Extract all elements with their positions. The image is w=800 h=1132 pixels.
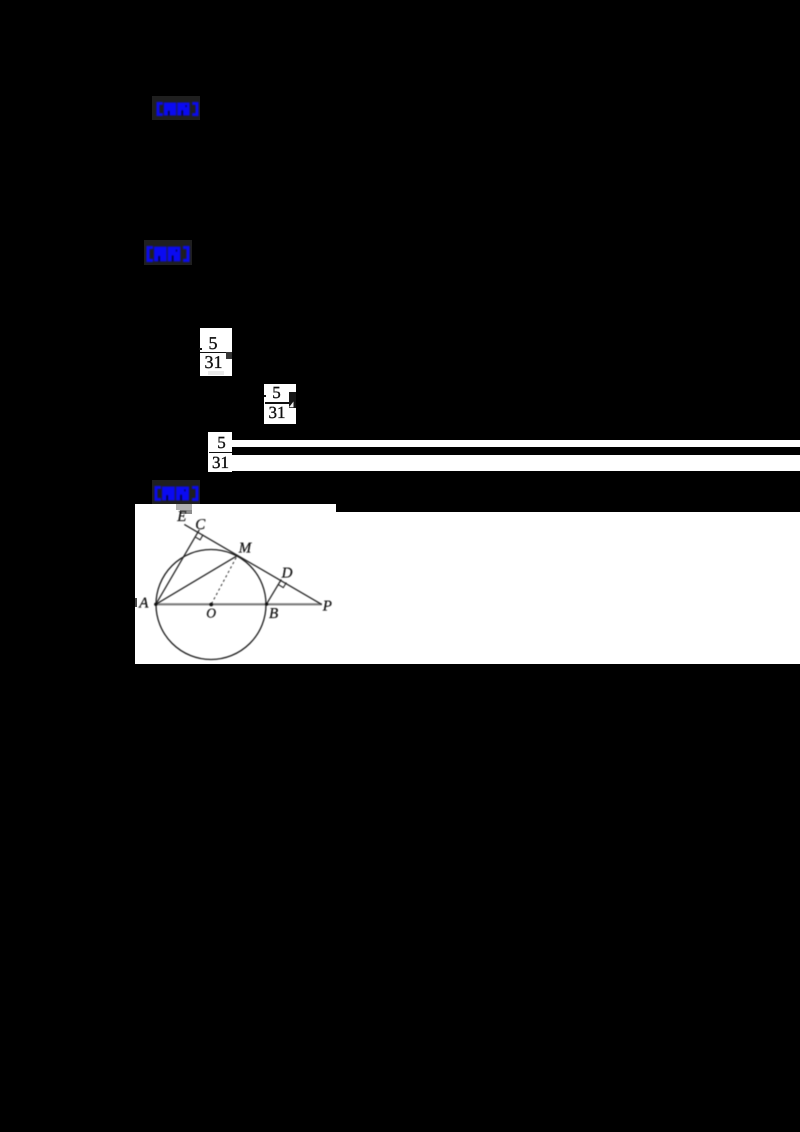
gray artifact block below label 3 [176,504,192,510]
answer label 1 (blue 【解析】 blob) [152,96,200,120]
dot at B [265,603,268,606]
chord A-M [156,556,238,605]
svg-text:A: A [138,595,149,611]
geometry figure drawing [135,504,800,663]
dot at O [209,603,213,607]
dot at A [154,603,157,606]
geometry figure white panel [135,504,800,664]
fraction 5/31 block 3 with highlight strips [208,432,232,472]
segment B-D [267,579,282,604]
dashed radius O-M [212,557,237,604]
svg-text:C: C [195,517,206,533]
fraction 5/31 block 2 [264,384,296,424]
answer label 3 (blue 【解答】 blob) [152,480,200,504]
svg-text:D: D [281,566,293,582]
white strip lower [232,455,800,471]
right angle mark at D [278,583,286,588]
svg-text:P: P [322,599,332,615]
svg-text:O: O [206,605,216,620]
svg-text:E: E [176,509,186,525]
right angle mark at C [195,535,203,540]
black notch over panel top-right [336,504,800,512]
tangent line E-C-M-D-P [184,524,321,604]
svg-text:M: M [238,540,253,556]
line A-O-B-P (horizontal, gray) [156,603,323,605]
white strip upper [232,440,800,448]
circle O [156,550,266,660]
answer label 2 (blue 【答案】 blob) [144,240,192,265]
fraction 5/31 block 1 [200,328,232,377]
svg-text:B: B [269,606,278,622]
segment A-C (perpendicular from A) [156,530,200,605]
dark sliver at panel left edge near A [135,598,137,608]
